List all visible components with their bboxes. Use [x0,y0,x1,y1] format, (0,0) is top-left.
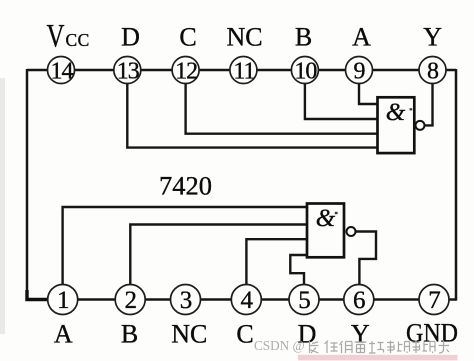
pin 6 circle [344,285,374,315]
svg-text:11: 11 [233,58,254,84]
pin 4 circle [231,285,261,315]
svg-text:7: 7 [428,287,441,314]
scan speck near U1 ampersand [410,108,413,110]
svg-text:7420: 7420 [159,171,212,201]
svg-text:4: 4 [241,287,254,314]
pin 2 circle [115,285,145,315]
pin 11 circle [230,57,257,84]
svg-text:D: D [121,23,140,52]
svg-text:NC: NC [226,23,262,52]
svg-text:CSDN @: CSDN @ [254,338,305,353]
U1 output bubble [416,121,425,130]
svg-text:&: & [386,99,406,126]
svg-text:1: 1 [57,287,70,314]
pin 9 circle [346,57,373,84]
scanner edge streak [0,78,5,334]
pin 14 circle [48,57,75,84]
IC outline right edge [455,69,458,301]
wire pin 2 to U2 input B [130,225,307,287]
svg-text:Y: Y [423,23,442,52]
svg-text:8: 8 [427,58,439,84]
pin 10 circle [291,57,318,84]
U2 output bubble [347,227,356,236]
NAND gate U2 body [307,204,344,258]
IC outline bottom-left corner emphasis [27,290,48,300]
IC outline bottom edge [27,298,456,301]
wire U1 output to pin 8 [424,82,432,125]
svg-text:B: B [295,23,312,52]
pin 7 circle [419,285,449,315]
wire pin 5 to U2 input D [290,255,307,286]
svg-text:10: 10 [294,58,317,84]
svg-text:C: C [236,320,253,349]
wire pin 13 to U1 input D [127,82,378,148]
wire pin 12 to U1 input C [186,82,378,134]
svg-text:2: 2 [124,287,137,314]
svg-text:V: V [47,19,65,55]
svg-text:B: B [121,320,138,349]
svg-text:5: 5 [298,287,311,314]
wire pin 4 to U2 input C [246,239,307,286]
svg-text:14: 14 [51,58,74,84]
wire pin 10 to U1 input B [305,82,378,119]
IC outline top edge [27,69,456,72]
wire U2 output to pin 6 [355,232,376,287]
wire pin 9 to U1 input A [359,82,378,104]
svg-text:CC: CC [66,30,90,50]
svg-text:A: A [54,320,73,349]
watermark pink underline bar [298,355,458,361]
svg-text:6: 6 [353,287,366,314]
svg-text:13: 13 [117,58,140,84]
svg-text:GND: GND [406,319,458,348]
pin 13 circle [114,57,141,84]
svg-text:A: A [352,23,371,52]
NAND gate U1 body [378,97,415,153]
svg-text:C: C [179,23,196,52]
svg-text:3: 3 [180,287,193,314]
svg-text:12: 12 [175,58,197,84]
IC outline left edge [26,69,29,301]
pin 8 circle [419,57,446,84]
watermark CJK glyph blocks [310,341,450,354]
svg-text:&: & [316,205,336,232]
pin 1 circle [48,285,78,315]
wire pin 1 to U2 input A [63,207,308,286]
svg-text:NC: NC [171,320,207,349]
pin 3 circle [171,285,201,315]
scan speck near U2 ampersand [335,212,338,214]
pin 5 circle [289,285,319,315]
pin 12 circle [172,57,199,84]
svg-text:9: 9 [354,58,366,84]
